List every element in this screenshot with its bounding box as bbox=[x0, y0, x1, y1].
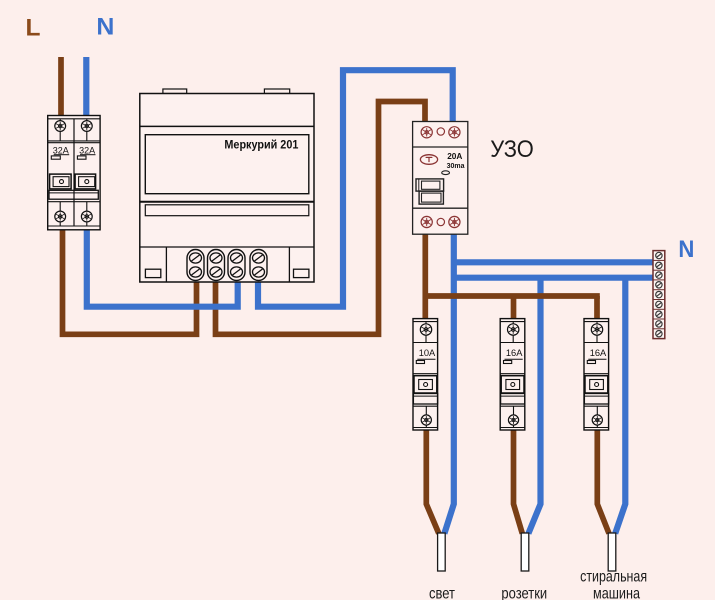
svg-text:16A: 16A bbox=[506, 348, 523, 358]
svg-text:машина: машина bbox=[593, 585, 640, 600]
svg-text:L: L bbox=[26, 14, 41, 41]
svg-text:розетки: розетки bbox=[501, 585, 547, 600]
svg-text:N: N bbox=[96, 14, 114, 41]
svg-text:32A: 32A bbox=[53, 146, 69, 156]
svg-text:УЗО: УЗО bbox=[490, 136, 534, 163]
svg-text:стиральная: стиральная bbox=[580, 569, 647, 586]
svg-text:30ma: 30ma bbox=[447, 163, 465, 170]
svg-text:N: N bbox=[678, 236, 694, 263]
svg-text:свет: свет bbox=[429, 585, 456, 600]
svg-text:Меркурий 201: Меркурий 201 bbox=[224, 138, 298, 152]
svg-text:10A: 10A bbox=[419, 348, 436, 358]
svg-text:32A: 32A bbox=[79, 146, 95, 156]
svg-text:16A: 16A bbox=[590, 348, 607, 358]
svg-text:20A: 20A bbox=[447, 151, 462, 161]
